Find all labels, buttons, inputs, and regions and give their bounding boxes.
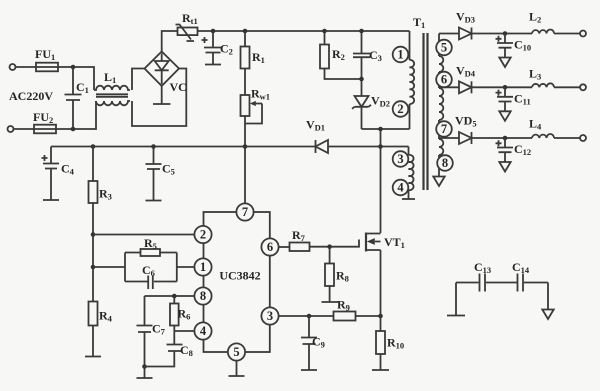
- node top bus C3: [359, 29, 364, 34]
- capacitor C14: [512, 260, 530, 292]
- inductor L3: [529, 67, 554, 88]
- node terminal 7: [436, 121, 452, 137]
- fuse FU2: [33, 110, 56, 133]
- node divider comp: [91, 265, 96, 270]
- diode VD3: [456, 10, 475, 40]
- wire pin6 to R7: [278, 246, 289, 248]
- ground pin5: [229, 360, 245, 376]
- potentiometer Rw1: [241, 87, 271, 124]
- pin 1: [194, 258, 211, 275]
- capacitor C10: [496, 34, 532, 58]
- transformer T1 primary winding: [410, 31, 415, 129]
- capacitor C12: [496, 138, 532, 162]
- ground R4: [85, 326, 101, 357]
- resistor R5 with C6 loop: [125, 236, 177, 282]
- svg-text:5: 5: [441, 41, 447, 55]
- capacitor C9: [301, 316, 325, 370]
- node row1 C10: [503, 31, 508, 36]
- resistor R7: [290, 228, 310, 251]
- node source R10 junction: [378, 314, 383, 319]
- capacitor C1: [65, 67, 89, 129]
- diode VD2: [352, 94, 390, 130]
- wire bus VD1 to aux: [328, 146, 409, 148]
- node top bus R2: [322, 29, 327, 34]
- svg-text:3: 3: [397, 152, 403, 166]
- terminal output 2: [580, 84, 586, 90]
- resistor R10: [372, 316, 404, 370]
- svg-text:UC3842: UC3842: [219, 269, 260, 283]
- wire R2: [325, 31, 362, 79]
- wire pin8: [145, 295, 195, 297]
- wire comp to RC: [93, 266, 125, 268]
- terminal input bottom: [8, 126, 14, 132]
- wire RC to pin1: [177, 266, 195, 268]
- node terminal 2: [393, 101, 409, 117]
- capacitor C6: [142, 263, 155, 289]
- wire R3 column: [92, 147, 94, 302]
- wire source: [380, 250, 382, 316]
- wire gate: [310, 240, 360, 247]
- node gate R8 junction: [327, 244, 332, 249]
- terminal input top: [10, 64, 16, 70]
- pin 2: [194, 226, 211, 243]
- capacitor C5: [146, 147, 175, 201]
- wire L1 top to bridge: [132, 69, 145, 91]
- capacitor C7: [137, 296, 166, 378]
- ground C11: [499, 111, 510, 121]
- label T1: [413, 15, 425, 30]
- wire row3: [472, 137, 581, 139]
- node top bus C2: [211, 29, 216, 34]
- wire bridge to Rt1: [162, 31, 177, 52]
- node C1 bottom junction: [71, 127, 76, 132]
- wire main bus left: [51, 146, 316, 148]
- svg-text:AC220V: AC220V: [9, 89, 53, 103]
- thermistor Rt1: [176, 11, 198, 41]
- capacitor C3: [353, 31, 382, 96]
- svg-text:VC: VC: [170, 80, 187, 94]
- capacitor C13: [474, 260, 491, 292]
- resistor R6: [170, 296, 190, 345]
- node bus pin7 column: [243, 144, 248, 149]
- svg-text:7: 7: [441, 122, 447, 136]
- ground R8: [322, 301, 339, 303]
- node terminal 6: [436, 72, 452, 88]
- ground C13 left: [447, 283, 465, 316]
- pin 5: [228, 343, 245, 360]
- resistor R3: [89, 181, 112, 203]
- wire drain vertical: [380, 129, 382, 233]
- diode VD4: [456, 64, 476, 94]
- node top bus R1: [243, 29, 248, 34]
- svg-text:8: 8: [442, 156, 448, 170]
- ground C12: [499, 162, 510, 172]
- svg-text:6: 6: [441, 73, 447, 87]
- bridge rectifier VC: [145, 52, 187, 95]
- transformer T1 secondary winding: [439, 34, 443, 173]
- diode VD1: [306, 118, 328, 154]
- node terminal 8: [437, 155, 453, 171]
- pin 3: [261, 307, 278, 324]
- ground secondary winding: [433, 172, 444, 186]
- ground C10: [499, 58, 510, 68]
- wire pin2: [93, 234, 195, 236]
- capacitor C2: [202, 31, 233, 65]
- wire R1 to Rw1: [244, 31, 246, 95]
- wire input top: [16, 67, 95, 90]
- resistor R4: [89, 302, 113, 326]
- node C1 top junction: [71, 65, 76, 70]
- node terminal 4: [393, 180, 409, 196]
- wire row1 anode: [439, 33, 459, 35]
- node R2 C3 junction: [359, 77, 364, 82]
- ground C14 right: [542, 283, 553, 320]
- svg-text:6: 6: [267, 240, 273, 254]
- wire row2 anode: [439, 86, 459, 88]
- svg-text:4: 4: [200, 324, 207, 338]
- resistor R2: [320, 45, 345, 69]
- wire input bottom: [14, 101, 97, 129]
- diode VD5: [455, 114, 477, 145]
- ground bridge: [153, 86, 170, 104]
- svg-text:8: 8: [200, 289, 206, 303]
- wire row2: [472, 86, 581, 88]
- transistor VT1: [366, 233, 405, 252]
- label AC220V: [9, 89, 53, 103]
- svg-text:3: 3: [267, 309, 273, 323]
- wire L1 bottom to bridge: [132, 69, 186, 127]
- node C7 C8 junction: [142, 364, 147, 369]
- IC U1 UC3842: [204, 212, 270, 352]
- inductor L2: [529, 10, 554, 34]
- node terminal 5: [436, 40, 452, 56]
- pin 6: [261, 238, 278, 255]
- svg-text:1: 1: [397, 48, 403, 62]
- capacitor C4: [42, 147, 75, 201]
- node divider pin2: [91, 232, 96, 237]
- terminal output 3: [580, 135, 586, 141]
- wire VD2 to primary bottom: [362, 128, 410, 130]
- wire Rw1 to bus: [244, 116, 246, 203]
- pin 8: [194, 287, 211, 304]
- node bus drain junction: [378, 144, 383, 149]
- transformer core: [424, 33, 428, 190]
- svg-text:2: 2: [200, 228, 206, 242]
- ground aux winding: [402, 198, 415, 200]
- capacitor C8: [145, 343, 193, 367]
- resistor R9: [334, 298, 356, 321]
- svg-text:1: 1: [200, 260, 206, 274]
- node terminal 1: [393, 47, 409, 63]
- terminal output 1: [580, 31, 586, 37]
- node row3 C12: [503, 136, 508, 141]
- svg-text:4: 4: [397, 181, 404, 195]
- wire C13 C14 link: [456, 282, 548, 284]
- node drain junction top: [378, 127, 383, 132]
- node pin3 C9 junction: [307, 314, 312, 319]
- inductor L1: [94, 70, 130, 105]
- node pin8 R6 junction: [172, 294, 177, 299]
- wire R9 to source: [356, 315, 381, 317]
- node bus C5: [151, 144, 156, 149]
- wire top bus: [198, 30, 410, 32]
- resistor R1: [241, 47, 265, 69]
- wire pin3: [278, 315, 333, 317]
- pin 7: [236, 203, 253, 220]
- node row2 C11: [503, 85, 508, 90]
- node bus R3: [91, 144, 96, 149]
- svg-text:7: 7: [242, 205, 248, 219]
- svg-text:5: 5: [233, 345, 239, 359]
- svg-text:2: 2: [397, 102, 403, 116]
- transformer T1 aux winding: [409, 147, 414, 200]
- wire row1: [472, 33, 581, 35]
- node terminal 3: [393, 151, 409, 167]
- wire pin4: [174, 330, 194, 332]
- fuse FU1: [35, 47, 58, 71]
- wire row3 anode: [439, 137, 459, 139]
- resistor R8: [325, 247, 349, 302]
- capacitor C11: [496, 87, 531, 111]
- inductor L4: [529, 117, 554, 139]
- pin 4: [194, 322, 211, 339]
